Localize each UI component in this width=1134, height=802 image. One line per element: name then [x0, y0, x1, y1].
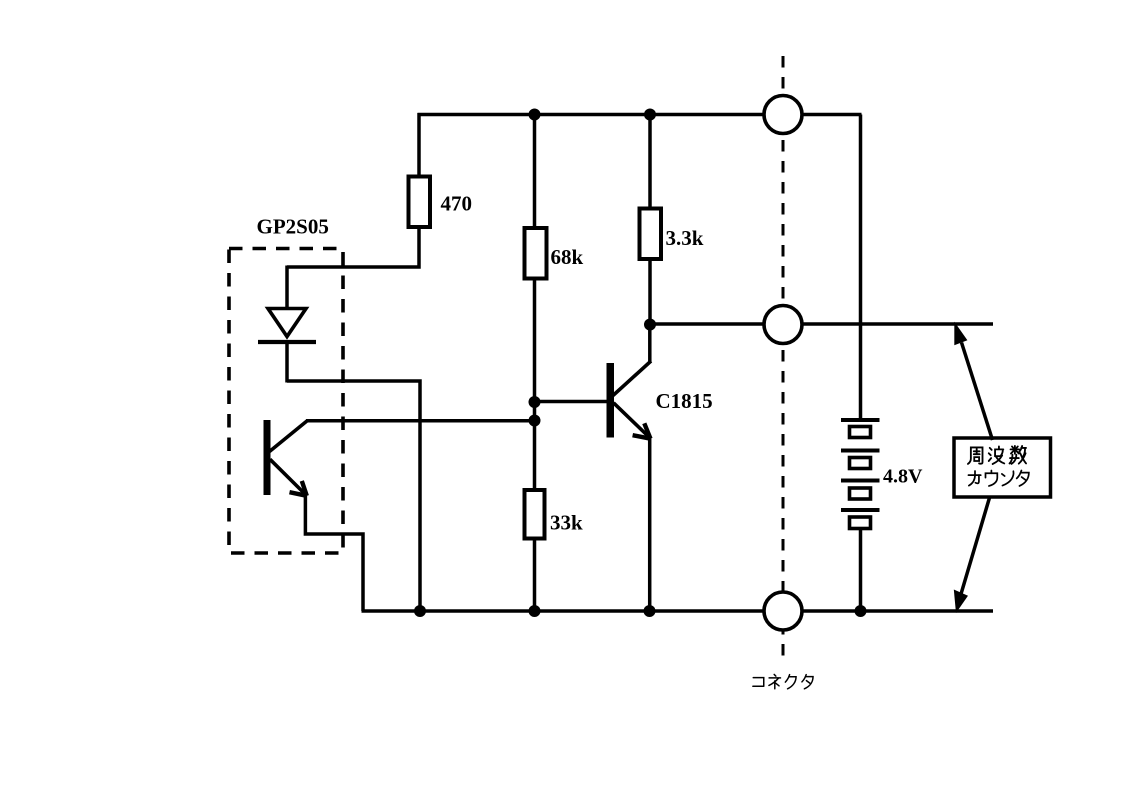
wire phototransistor collector to divider node	[306, 419, 536, 423]
battery BT1 cell 4 short plate	[850, 517, 871, 529]
wire phototransistor emitter down jog to ground rail	[305, 495, 363, 612]
connector circle bottom pin	[764, 592, 802, 630]
svg-text:3.3k: 3.3k	[666, 226, 704, 250]
wire battery top lead from top rail	[859, 115, 863, 419]
transistor Q2 C1815 base bar	[607, 363, 615, 438]
wire emitter down to ground rail	[648, 439, 652, 612]
svg-text:4.8V: 4.8V	[883, 466, 923, 488]
wire 68k bottom lead to base node	[533, 278, 537, 491]
connector dashed centerline	[782, 56, 785, 664]
dashed enclosure GP2S05 photointerrupter	[229, 249, 343, 554]
battery BT1 plate 1 long	[841, 418, 880, 422]
junction dot output node / collector	[644, 319, 656, 331]
wire 470 bottom lead down to LED anode jog	[287, 227, 419, 267]
junction dot ground / 33k	[529, 605, 541, 617]
junction dot ground / emitter	[644, 605, 656, 617]
connector circle middle pin	[764, 306, 802, 344]
transistor Q2 collector stroke	[613, 361, 651, 396]
junction dot ground / battery	[855, 605, 867, 617]
svg-text:GP2S05: GP2S05	[257, 215, 329, 239]
wire bottom ground rail	[362, 609, 994, 613]
arrow to middle rail	[962, 343, 993, 441]
wire collector to output node	[648, 324, 652, 363]
phototransistor Q1 emitter stroke with arrow	[270, 459, 307, 495]
label katakana "ka" in frequency counter box	[968, 471, 980, 486]
svg-text:470: 470	[441, 192, 473, 216]
battery BT1 plate 3 long	[841, 479, 880, 483]
label kanji "shuu" (period) in frequency counter box	[968, 447, 983, 463]
resistor R3 3.3k body	[640, 209, 662, 260]
junction dot ground / LED leg	[414, 605, 426, 617]
label katakana "n" in frequency counter box	[1002, 471, 1014, 485]
junction dot base node upper	[529, 396, 541, 408]
junction dot top rail / 68k	[529, 109, 541, 121]
battery BT1 cell 1 short plate	[850, 427, 871, 438]
battery BT1 cell 2 short plate	[850, 458, 871, 469]
wire top supply rail	[418, 113, 862, 117]
junction dot base node lower	[529, 415, 541, 427]
svg-text:68k: 68k	[551, 245, 584, 269]
transistor Q2 emitter stroke with arrow	[614, 403, 651, 439]
label katakana "ku" of connector caption	[785, 675, 796, 689]
wire 33k bottom lead to ground rail	[533, 538, 537, 611]
LED D1 cathode bar	[258, 340, 316, 344]
battery BT1 cell 3 short plate	[850, 488, 871, 499]
wire base of C1815	[535, 400, 609, 404]
wire LED anode vertical	[285, 266, 289, 311]
label katakana "ne" of connector caption	[769, 674, 781, 688]
wire LED cathode lead	[285, 342, 289, 383]
wire 3.3k top lead from top rail	[648, 115, 652, 210]
label kanji "suu" (number) in frequency counter box	[1010, 446, 1026, 464]
resistor R1 470 body	[409, 177, 431, 228]
connector circle top pin	[764, 96, 802, 134]
frequency counter box	[954, 438, 1051, 497]
phototransistor Q1 collector stroke	[270, 421, 308, 452]
label katakana "ko" of connector caption	[753, 678, 764, 687]
wire 68k top lead from top rail	[533, 115, 537, 230]
arrow to ground rail	[961, 496, 990, 594]
wire 470 resistor top lead	[417, 113, 421, 177]
junction dot top rail / 3.3k	[644, 109, 656, 121]
label katakana "ta" in frequency counter box	[1017, 470, 1029, 485]
phototransistor Q1 base bar	[264, 420, 271, 495]
wire 3.3k bottom lead to output node	[648, 259, 652, 326]
LED D1 triangle (anode)	[268, 309, 306, 337]
wire battery bottom lead to ground rail	[859, 529, 863, 612]
svg-text:C1815: C1815	[656, 389, 713, 413]
wire middle output rail	[650, 322, 993, 326]
label katakana "u" in frequency counter box	[985, 470, 997, 485]
resistor R2 68k body	[525, 228, 547, 279]
battery BT1 plate 4 long	[841, 508, 880, 512]
resistor R4 33k body	[525, 490, 545, 539]
label katakana "ta" of connector caption	[802, 675, 813, 689]
label kanji "ha" (wave) in frequency counter box	[989, 446, 1005, 464]
wire LED cathode jog to right and down to ground rail	[287, 381, 420, 611]
svg-text:33k: 33k	[550, 511, 583, 535]
battery BT1 plate 2 long	[841, 449, 880, 453]
